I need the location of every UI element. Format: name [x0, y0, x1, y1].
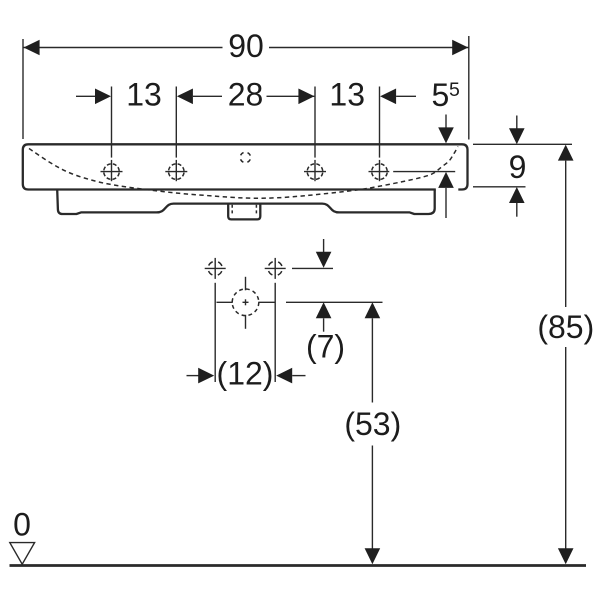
dimension 7 up arrowhead	[316, 302, 332, 318]
drain pipe hidden edge right	[255, 205, 257, 215]
dimension 53 down arrowhead	[365, 548, 381, 564]
dimension 12 right arrowhead	[276, 368, 292, 384]
dimension 90 arrowhead right	[452, 40, 468, 56]
dimension 12 right arrow tail	[292, 375, 305, 377]
tap hole 2 crosshair	[165, 164, 187, 180]
dimension 53 up arrowhead	[365, 302, 381, 318]
drain outlet dashed circle	[217, 277, 275, 329]
dimension 13 outside arrowhead	[95, 89, 111, 105]
dimension 7 down arrow stem	[323, 239, 325, 253]
dimension 85 line lower segment	[565, 347, 567, 549]
svg-text:0: 0	[13, 507, 31, 543]
tap hole 3 crosshair	[304, 164, 326, 180]
datum triangle symbol	[10, 543, 35, 565]
dimension 28 arrowhead right	[298, 89, 314, 105]
dimension 9 top extension line	[473, 143, 572, 145]
fixing hole cross left	[205, 258, 226, 279]
svg-text:13: 13	[329, 77, 365, 113]
dimension 5.5 down arrowhead	[438, 127, 454, 143]
dimension 9 bottom extension line	[473, 186, 526, 188]
dimension 13 right outside arrow tail	[396, 95, 416, 97]
hole 2 extension line	[175, 87, 177, 158]
basin bowl dashed outline	[29, 147, 458, 199]
tap hole 1 crosshair	[101, 164, 123, 180]
dimension 7 down arrowhead	[316, 252, 332, 268]
dimension 90 line left segment	[23, 47, 223, 49]
hole 3 extension line	[314, 87, 316, 158]
dimension 7 up arrow stem	[323, 318, 325, 331]
drain trap box	[228, 204, 260, 219]
dimension 13 outside arrow tail	[76, 95, 96, 97]
dimension 9 up arrow stem	[516, 203, 518, 217]
dimension 7 top reference line	[292, 267, 333, 269]
tap hole 4 crosshair with reference line	[369, 164, 456, 180]
dimension 53 line upper segment	[371, 318, 373, 402]
basin rim front rectangle	[23, 144, 468, 189]
svg-text:(85): (85)	[537, 309, 594, 345]
dimension 90 arrowhead left	[24, 40, 40, 56]
dimension 7 bottom reference line	[286, 301, 383, 303]
fixing hole right extension line	[274, 283, 276, 382]
dimension 53 line lower segment	[371, 446, 373, 549]
hole 4 extension line	[379, 87, 381, 158]
hole 1 extension line	[111, 87, 113, 158]
dimension 5.5 down arrow stem	[445, 115, 447, 129]
dimension 28 arrowhead left	[177, 89, 193, 105]
dimension 9 down arrowhead	[509, 128, 525, 144]
dimension 28 line right segment	[267, 95, 315, 97]
svg-text:13: 13	[126, 77, 162, 113]
dimension 5.5 up arrow stem	[445, 188, 447, 218]
dimension 5.5 up arrowhead	[438, 172, 454, 188]
svg-text:90: 90	[228, 28, 264, 64]
svg-text:28: 28	[228, 77, 264, 113]
dimension 9 down arrow stem	[516, 116, 518, 130]
overflow hole dashed circle	[240, 152, 250, 162]
svg-text:5: 5	[449, 79, 460, 101]
svg-text:(7): (7)	[306, 329, 345, 365]
dimension 85 line upper segment	[565, 161, 567, 307]
fixing hole cross right	[265, 258, 286, 279]
dimension 90 line right segment	[269, 47, 469, 49]
drain pipe hidden edge left	[231, 205, 233, 215]
svg-text:5: 5	[432, 77, 450, 113]
dimension 9 up arrowhead	[509, 187, 525, 203]
dimension 90 extension line left	[22, 39, 24, 139]
fixing hole left extension line	[214, 283, 216, 382]
dimension 12 left arrowhead	[198, 368, 214, 384]
dimension 13 right outside arrowhead	[380, 89, 396, 105]
dimension 28 line left segment	[193, 95, 222, 97]
svg-text:(53): (53)	[344, 406, 401, 442]
svg-text:9: 9	[509, 149, 527, 185]
dimension 12 left arrow tail	[187, 375, 200, 377]
svg-text:(12): (12)	[217, 356, 274, 392]
basin pedestal outline	[57, 190, 435, 215]
floor reference line	[10, 564, 587, 567]
dimension 90 extension line right	[468, 36, 470, 140]
dimension 85 down arrowhead	[558, 548, 574, 564]
dimension 85 up arrowhead	[558, 145, 574, 161]
